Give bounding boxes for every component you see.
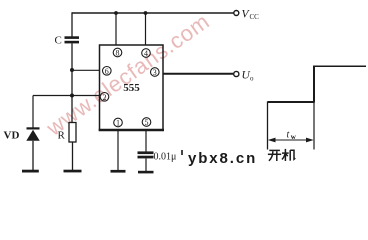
svg-text:6: 6 (105, 67, 109, 76)
wire cap to ground (145, 158, 147, 171)
op-amp U1 555 IC box (100, 45, 164, 130)
waveform rising edge (313, 66, 315, 102)
svg-text:0.01μ: 0.01μ (154, 152, 177, 163)
wire left vertical top (71, 12, 73, 36)
pin 3 (151, 68, 160, 77)
pin 2 (100, 93, 109, 102)
svg-text:t: t (287, 130, 290, 141)
svg-text:R: R (58, 130, 66, 142)
svg-text:5: 5 (145, 118, 149, 127)
node junction pin2 wire (70, 94, 74, 98)
waveform right vertical thin (313, 102, 315, 150)
svg-text:VD: VD (4, 130, 20, 142)
pin 6 (103, 67, 112, 76)
waveform high level (313, 65, 366, 67)
wire diode to ground (32, 141, 34, 170)
svg-text:ybx8.cn: ybx8.cn (188, 150, 257, 167)
diode VD (27, 127, 40, 129)
label kaiji (power-on) glyph 开 (268, 150, 281, 161)
svg-text:CC: CC (250, 13, 260, 21)
ground (R) (64, 170, 82, 173)
svg-text:4: 4 (144, 49, 148, 58)
svg-text:o: o (250, 75, 254, 83)
pin 1 (114, 118, 123, 127)
wire pin8 stub (115, 13, 117, 45)
wire to pin6 (72, 69, 100, 71)
wire pin3 output (163, 73, 233, 75)
arrow tw span (270, 139, 312, 141)
svg-text:1: 1 (116, 119, 120, 128)
wire pin1 to ground (117, 130, 119, 170)
pin 5 (142, 118, 151, 127)
wire pin5 down (145, 130, 147, 152)
terminal Vcc (234, 11, 239, 16)
pin 4 (142, 49, 151, 58)
waveform low level (268, 101, 315, 103)
node junction pin6 wire (70, 68, 74, 72)
waveform left vertical (267, 102, 269, 150)
svg-text:8: 8 (116, 49, 120, 58)
capacitor 0.01u (138, 151, 154, 154)
watermark apostrophe fragment (181, 150, 183, 155)
ground (0.01u cap) (138, 171, 154, 174)
svg-text:3: 3 (153, 68, 157, 77)
wire R to ground (72, 142, 74, 170)
node junction on top rail (pin4 column) (144, 11, 148, 15)
terminal Uo (234, 71, 239, 76)
wire diode branch vertical (32, 96, 34, 129)
wire top rail (72, 12, 234, 14)
ground (pin 1) (111, 170, 126, 173)
wire left vertical middle (71, 43, 73, 122)
label kaiji (power-on) glyph 机 (282, 149, 295, 161)
wire to pin2 (33, 95, 100, 97)
wire pin4 stub (145, 13, 147, 45)
capacitor C (65, 36, 80, 39)
svg-text:C: C (55, 35, 62, 47)
resistor R (69, 123, 76, 143)
svg-text:555: 555 (123, 82, 140, 94)
svg-text:2: 2 (103, 93, 107, 102)
node junction on top rail (pin8 column) (114, 11, 118, 15)
ground (diode) (22, 170, 39, 173)
pin 8 (113, 48, 122, 57)
IC bottom edge thick (99, 129, 164, 132)
